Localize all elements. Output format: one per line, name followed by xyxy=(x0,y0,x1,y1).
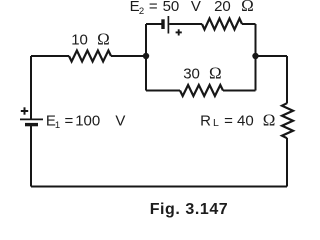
resistor 30 ohm xyxy=(180,85,223,96)
wire bottom branch left segment xyxy=(146,90,180,92)
svg-text:L: L xyxy=(213,117,219,129)
svg-text:Ω: Ω xyxy=(263,110,276,129)
wire top-left horizontal to R 10 ohm xyxy=(31,55,69,57)
resistor RL 40 ohm xyxy=(282,103,293,138)
resistor 20 ohm xyxy=(202,19,242,30)
wire top branch left segment xyxy=(146,23,162,25)
wire from 10 ohm to node A xyxy=(111,55,146,57)
svg-text:V: V xyxy=(115,112,125,129)
wire loop right vertical xyxy=(255,24,257,91)
svg-text:=: = xyxy=(224,112,233,129)
label RL = 40 ohm xyxy=(200,110,275,129)
node B junction dot xyxy=(252,53,258,59)
wire 20 ohm to loop right corner xyxy=(242,23,256,25)
wire right vertical lower xyxy=(286,138,288,187)
svg-text:2: 2 xyxy=(139,6,144,17)
node A junction dot xyxy=(143,53,149,59)
battery E2 negative plate (short thick) xyxy=(161,19,164,29)
battery E1 negative plate (short thick) xyxy=(25,123,38,126)
svg-text:V: V xyxy=(191,0,201,15)
wire bottom horizontal xyxy=(31,186,287,188)
battery E2 positive plate (long thin) xyxy=(167,16,169,34)
svg-text:=: = xyxy=(65,112,74,129)
label E2 = 50 V xyxy=(130,0,201,17)
svg-text:=: = xyxy=(149,0,158,15)
battery E2 plus sign xyxy=(176,29,182,35)
wire left vertical lower xyxy=(30,125,32,187)
wire battery E2 to R 20 ohm xyxy=(169,23,202,25)
svg-text:Fig. 3.147: Fig. 3.147 xyxy=(150,201,228,218)
svg-text:R: R xyxy=(200,112,211,129)
svg-text:Ω: Ω xyxy=(97,29,110,48)
svg-text:100: 100 xyxy=(75,112,100,129)
svg-text:Ω: Ω xyxy=(209,64,222,83)
svg-text:20: 20 xyxy=(214,0,231,15)
svg-text:50: 50 xyxy=(163,0,180,15)
wire left vertical upper xyxy=(30,56,32,119)
svg-text:1: 1 xyxy=(55,120,60,131)
svg-text:Ω: Ω xyxy=(241,0,254,15)
wire loop left vertical xyxy=(145,24,147,91)
svg-text:40: 40 xyxy=(237,112,254,129)
resistor 10 ohm xyxy=(69,51,111,62)
wire node B to right side xyxy=(256,55,288,57)
battery E1 plus sign xyxy=(21,107,28,114)
svg-text:10: 10 xyxy=(71,31,88,48)
label E1 = 100 V xyxy=(46,112,126,131)
wire right vertical upper xyxy=(286,56,288,103)
wire bottom branch right segment xyxy=(223,90,256,92)
svg-text:30: 30 xyxy=(183,66,200,83)
battery E1 positive plate (long thin) xyxy=(20,118,43,120)
